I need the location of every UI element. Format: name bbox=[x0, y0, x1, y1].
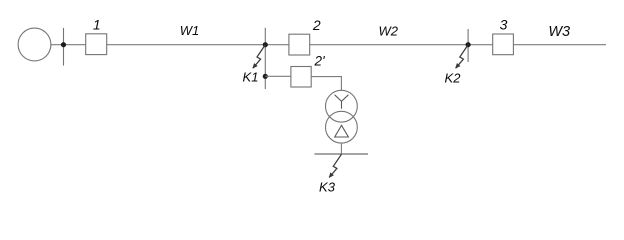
wire branch to breaker 2' bbox=[265, 75, 291, 77]
node junction K2 on main line bbox=[466, 42, 471, 47]
breaker 3 bbox=[493, 34, 514, 55]
svg-text:K2: K2 bbox=[445, 70, 462, 85]
svg-text:K1: K1 bbox=[243, 69, 259, 84]
transformer T1 wye symbol bbox=[335, 95, 349, 109]
bus bar at node K2 bbox=[467, 29, 469, 62]
svg-text:K3: K3 bbox=[319, 179, 336, 194]
generator G1 bbox=[18, 28, 51, 61]
label 3 bbox=[500, 17, 508, 33]
bus bar at generator bbox=[63, 28, 65, 66]
label W2 bbox=[378, 24, 398, 39]
label W1 bbox=[180, 23, 200, 38]
node junction branch tap bbox=[263, 74, 268, 79]
svg-text:W3: W3 bbox=[548, 24, 570, 40]
breaker 2' bbox=[291, 67, 311, 88]
label K3 bbox=[319, 179, 336, 194]
label 1 bbox=[93, 16, 101, 32]
fault arrow K2 bbox=[456, 45, 468, 68]
label K2 bbox=[445, 70, 462, 85]
label 2' bbox=[314, 53, 326, 68]
svg-text:1: 1 bbox=[93, 16, 101, 32]
breaker 2 bbox=[289, 34, 310, 55]
label W3 bbox=[548, 24, 570, 40]
svg-text:2': 2' bbox=[314, 53, 326, 68]
label 2 bbox=[312, 17, 321, 33]
node junction K1 on main line bbox=[263, 42, 268, 47]
fault arrow K1 bbox=[253, 45, 265, 68]
bus bar at node K1 bbox=[264, 28, 266, 89]
svg-text:W1: W1 bbox=[180, 23, 200, 38]
transformer T1 delta symbol bbox=[335, 125, 349, 137]
node junction at generator bus bbox=[61, 42, 66, 47]
svg-text:W2: W2 bbox=[378, 24, 398, 39]
wire transformer to LV bus bbox=[340, 143, 342, 154]
wire main feeder line bbox=[51, 44, 606, 46]
svg-text:3: 3 bbox=[500, 17, 508, 33]
svg-text:2: 2 bbox=[312, 17, 321, 33]
LV bus bar bbox=[315, 153, 369, 155]
transformer T1 primary winding (Y) bbox=[326, 90, 358, 122]
transformer T1 secondary winding (delta) bbox=[326, 111, 358, 143]
wire from breaker 2' to transformer bbox=[311, 77, 341, 91]
fault arrow K3 bbox=[329, 154, 341, 177]
breaker 1 bbox=[86, 34, 107, 55]
label K1 bbox=[243, 69, 259, 84]
